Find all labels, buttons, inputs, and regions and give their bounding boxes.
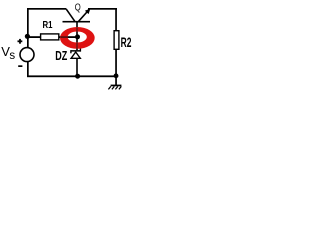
wire node A to R1 left bbox=[27, 36, 40, 38]
wire R1 right to node B bbox=[60, 36, 78, 38]
wire top rail from Vs+ corner to collector bbox=[27, 8, 66, 10]
transistor Q bbox=[63, 3, 91, 23]
wire bottom rail bbox=[27, 75, 118, 77]
node A junction dot Vs+/R1 bbox=[25, 34, 30, 39]
node D junction dot R2/rail/ground bbox=[114, 73, 119, 78]
wire left vertical from top corner down to Vs circle bbox=[27, 8, 29, 47]
node C junction dot zener/rail bbox=[75, 74, 80, 79]
wire emitter to right corner bbox=[88, 8, 117, 10]
zener diode DZ bbox=[55, 38, 81, 77]
svg-text:R2: R2 bbox=[121, 34, 132, 50]
node B junction dot R1/base/zener bbox=[75, 34, 80, 39]
wire right vertical to R2 top bbox=[115, 8, 117, 31]
wire Vs bottom to rail bbox=[27, 62, 29, 77]
voltage source Vs bbox=[1, 39, 34, 67]
resistor R2 bbox=[114, 31, 131, 51]
wire R2 bottom to rail bbox=[115, 50, 117, 76]
highlight ellipse (red) around base-zener node bbox=[60, 27, 95, 49]
resistor R1 bbox=[41, 19, 59, 40]
svg-text:R1: R1 bbox=[43, 19, 53, 31]
svg-text:Q: Q bbox=[75, 3, 81, 14]
svg-text:DZ: DZ bbox=[55, 48, 67, 63]
svg-text:s: s bbox=[9, 50, 15, 62]
wire base stub bbox=[76, 22, 78, 38]
ground bbox=[108, 76, 121, 89]
